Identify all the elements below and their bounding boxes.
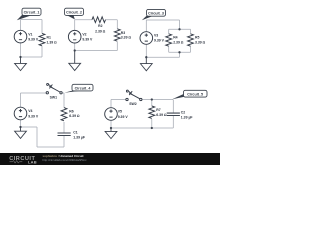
svg-text:V3: V3 — [154, 33, 158, 37]
svg-text:SW1: SW1 — [50, 96, 58, 100]
svg-text:V2: V2 — [82, 32, 86, 36]
svg-text:9.39 V: 9.39 V — [28, 114, 39, 118]
svg-text:R2: R2 — [98, 24, 102, 28]
svg-text:Circuit_3: Circuit_3 — [148, 11, 164, 15]
svg-text:Circuit_1: Circuit_1 — [24, 10, 40, 14]
svg-text:R6: R6 — [69, 109, 73, 113]
svg-text:1.39 Ω: 1.39 Ω — [47, 40, 58, 44]
svg-text:1.39 µF: 1.39 µF — [181, 115, 193, 119]
svg-text:9.39 V: 9.39 V — [154, 38, 165, 42]
svg-text:9.39 V: 9.39 V — [118, 115, 129, 119]
svg-text:1.39 µF: 1.39 µF — [73, 135, 85, 139]
svg-text:Circuit_4: Circuit_4 — [75, 86, 92, 90]
svg-text:9.39 V: 9.39 V — [82, 38, 93, 42]
svg-text:6.39 Ω: 6.39 Ω — [69, 114, 80, 118]
svg-text:V5: V5 — [118, 110, 122, 114]
svg-text:C1: C1 — [73, 130, 77, 134]
svg-text:R4: R4 — [173, 36, 177, 40]
svg-text:3.39 Ω: 3.39 Ω — [121, 36, 132, 40]
svg-text:Circuit_2: Circuit_2 — [66, 10, 82, 14]
svg-text:SW2: SW2 — [129, 102, 137, 106]
svg-text:C2: C2 — [181, 110, 185, 114]
svg-text:R1: R1 — [47, 36, 51, 40]
svg-text:R5: R5 — [195, 36, 199, 40]
svg-text:V4: V4 — [28, 109, 32, 113]
svg-text:6.39 Ω: 6.39 Ω — [156, 113, 167, 117]
svg-text:V1: V1 — [28, 32, 32, 36]
svg-text:R7: R7 — [156, 108, 160, 112]
svg-text:2.39 Ω: 2.39 Ω — [95, 29, 106, 33]
svg-text:R3: R3 — [121, 31, 125, 35]
svg-text:2.39 Ω: 2.39 Ω — [173, 40, 184, 44]
svg-text:Circuit_5: Circuit_5 — [187, 93, 203, 97]
svg-text:http://circuitlab.com/c/29bbda: http://circuitlab.com/c/29bbdahf5mc — [43, 158, 88, 162]
svg-text:LAB: LAB — [28, 159, 37, 164]
svg-text:3.39 Ω: 3.39 Ω — [195, 40, 206, 44]
svg-text:9.39 V: 9.39 V — [28, 37, 39, 41]
